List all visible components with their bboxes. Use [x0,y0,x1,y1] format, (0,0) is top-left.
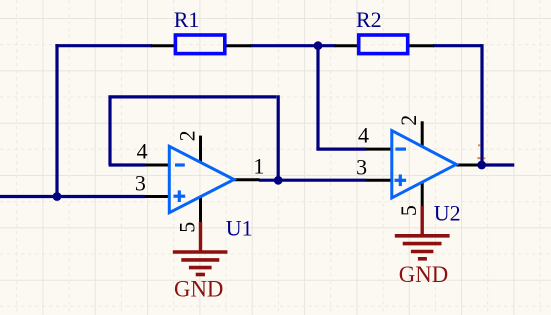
hidden pin number 1 of U2 (fringe marks) [477,144,485,159]
wire U1 feedback to pin4 [109,163,145,166]
resistor R1 body [175,35,224,54]
wire top horizontal to R1 [55,44,152,47]
svg-text:R1: R1 [174,7,200,32]
junction node C (U1 output tee) [274,176,283,185]
wires (navy) [0,44,514,196]
op-amp U2 triangle [392,131,456,198]
U1 plus symbol [174,190,186,202]
U2 pin 5 lead [421,182,424,207]
wire input vertical riser x=57 [55,44,58,196]
wire U1 output to U2 pin3 [259,179,366,182]
U1 pin 1 output lead [234,178,260,181]
pin leads (black) [145,46,478,223]
R1 right lead [224,44,251,47]
R2 right lead [407,44,435,47]
wire U1 feedback vertical right x=277.8 [277,95,280,180]
R1 left lead [151,44,176,47]
wire right vertical into U2 output junction [480,44,483,165]
svg-text:3: 3 [356,154,367,179]
U1 minus symbol [175,163,185,166]
svg-text:2: 2 [175,130,200,141]
wire U1 feedback top horizontal y=98 [111,95,276,98]
U1 pin 3 lead [145,195,170,198]
svg-text:GND: GND [399,262,448,287]
svg-text:5: 5 [174,222,199,233]
svg-text:4: 4 [137,138,148,163]
U2 minus symbol [395,148,406,151]
U2 pin 4 lead [366,148,391,151]
U1 pin 4 lead [145,164,170,167]
op-amp U1 triangle [169,146,234,212]
R2 left lead [335,44,361,47]
wire U1 feedback left vertical x=110 [108,95,111,165]
svg-text:R2: R2 [356,7,382,32]
svg-text:3: 3 [135,171,146,196]
U2 pin 1 output lead [456,164,478,167]
U1 pin 5 lead [199,197,202,223]
wire input net to U1 pin3 [0,195,145,198]
wire R1 right to R2 left [250,44,336,47]
svg-text:1: 1 [253,153,264,178]
wire U2 feedback vertical x=318 [316,46,319,149]
svg-text:U1: U1 [226,215,253,240]
svg-text:GND: GND [174,276,223,301]
U1 pin 2 lead [199,136,202,162]
wire U2 feedback horizontal to pin4 [316,148,366,151]
junction node B (R1/R2 tee) [314,41,323,50]
U2 pin 3 lead [366,179,391,182]
svg-text:U2: U2 [434,201,461,226]
wire R2 right to right corner [433,44,482,47]
U2 pin 2 lead [421,121,424,147]
junction node A (input tee) [53,192,62,201]
svg-text:2: 2 [396,115,421,126]
ground symbol U2 [395,206,450,259]
ground symbol U1 [173,222,228,275]
wire U2 output net [478,163,514,166]
U2 plus symbol [395,175,407,187]
svg-text:4: 4 [358,122,369,147]
junction node D (U2 output tee) [477,161,486,170]
svg-text:5: 5 [396,205,421,216]
resistor R2 body [359,35,408,54]
